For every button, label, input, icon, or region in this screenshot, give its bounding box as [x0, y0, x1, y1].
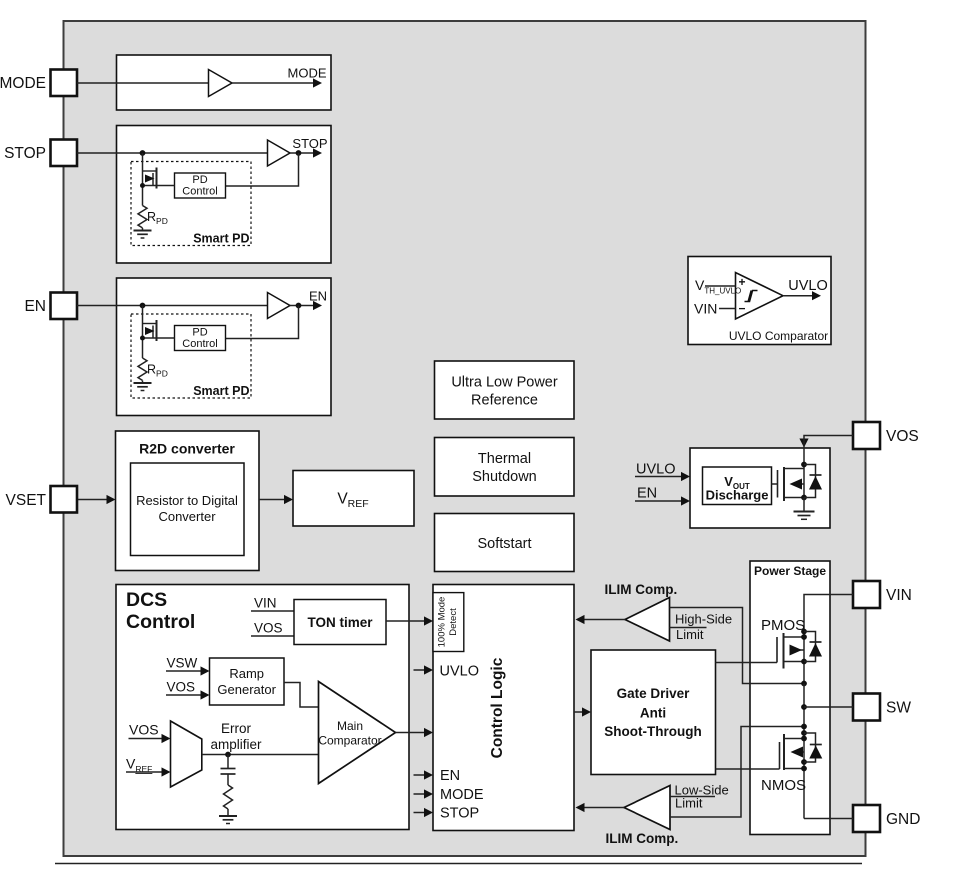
- svg-text:Shoot-Through: Shoot-Through: [604, 724, 701, 739]
- MODE buffer block box: [117, 55, 332, 110]
- svg-text:STOP: STOP: [4, 145, 46, 162]
- svg-text:Ramp: Ramp: [229, 666, 264, 681]
- PD Control box: [175, 326, 226, 351]
- IC body outline: [64, 21, 866, 856]
- wire gate driver to PMOS gate: [716, 662, 778, 664]
- error amplifier: [171, 721, 202, 787]
- wire resistor to ground: [142, 381, 144, 384]
- feedback wire to PD Control: [226, 306, 299, 339]
- buffer amplifier MODE: [209, 70, 233, 97]
- wire SW node to SW pin: [804, 706, 853, 708]
- wire ILIM comp to control logic: [585, 619, 626, 621]
- hysteresis symbol: [745, 291, 758, 302]
- svg-text:Comparator: Comparator: [318, 734, 381, 748]
- junction low-side sense: [801, 724, 807, 730]
- ground symbol compensation: [219, 815, 237, 817]
- wire EN into control logic: [414, 774, 425, 776]
- svg-text:ILIM Comp.: ILIM Comp.: [605, 582, 678, 597]
- svg-text:STOP: STOP: [440, 806, 479, 822]
- wire ILIM comp low to control logic: [585, 807, 625, 809]
- body diode of discharge FET: [804, 465, 816, 498]
- junction high-side sense: [801, 681, 807, 687]
- PD Control box: [175, 173, 226, 198]
- pin GND: [853, 805, 880, 832]
- wire VOS to TON timer: [251, 635, 294, 637]
- svg-text:Smart PD: Smart PD: [193, 384, 249, 398]
- svg-text:UVLO Comparator: UVLO Comparator: [729, 329, 828, 343]
- ground symbol discharge: [794, 511, 815, 513]
- svg-text:PD: PD: [192, 174, 207, 186]
- svg-text:Softstart: Softstart: [478, 536, 532, 552]
- Ultra Low Power Reference box: [435, 361, 575, 419]
- pin VIN: [853, 581, 880, 608]
- svg-text:PMOS: PMOS: [761, 617, 805, 634]
- svg-text:Error: Error: [221, 721, 252, 736]
- svg-text:NMOS: NMOS: [761, 777, 806, 794]
- wire VSET pin to R2D: [78, 499, 107, 501]
- junction at buffer output: [296, 150, 302, 156]
- wire SW node rail: [803, 684, 805, 734]
- buffer amplifier EN: [268, 293, 291, 319]
- Smart PD dashed box: [131, 162, 251, 246]
- svg-text:MODE: MODE: [0, 75, 46, 92]
- wire gate driver to NMOS gate: [716, 768, 780, 770]
- svg-text:VOS: VOS: [254, 621, 283, 636]
- svg-text:UVLO: UVLO: [636, 462, 676, 478]
- wire main comparator to control logic: [396, 732, 425, 734]
- svg-text:Gate Driver: Gate Driver: [617, 686, 691, 701]
- svg-text:100% Mode: 100% Mode: [437, 597, 448, 648]
- svg-text:R2D converter: R2D converter: [139, 441, 235, 457]
- resistor RPD: [138, 358, 147, 380]
- wire buffer to STOP output arrow: [290, 152, 314, 154]
- STOP input block box: [117, 126, 332, 264]
- svg-text:Resistor to Digital: Resistor to Digital: [136, 493, 238, 508]
- svg-text:STOP: STOP: [292, 136, 327, 151]
- wire MODE into control logic: [414, 793, 425, 795]
- pulldown transistor: [142, 306, 144, 359]
- svg-text:Power Stage: Power Stage: [754, 564, 826, 578]
- wire EN into discharge: [635, 500, 681, 502]
- svg-text:Converter: Converter: [158, 509, 216, 524]
- wire resistor to ground: [142, 228, 144, 231]
- svg-text:Ultra Low Power: Ultra Low Power: [451, 375, 558, 391]
- wire control logic to gate driver: [574, 711, 582, 713]
- low-side ILIM comparator: [624, 786, 670, 830]
- svg-text:VOS: VOS: [167, 680, 196, 695]
- pin VOS: [853, 422, 880, 449]
- svg-text:Anti: Anti: [640, 706, 666, 721]
- Power Stage box: [750, 561, 830, 835]
- wire EN pin to buffer: [77, 305, 268, 307]
- junction SW: [801, 704, 807, 710]
- junction node on STOP line: [140, 150, 146, 156]
- junction node on EN line: [140, 303, 146, 309]
- svg-text:VIN: VIN: [254, 596, 277, 611]
- svg-text:Control: Control: [182, 338, 217, 350]
- wire High-Side Limit stub: [670, 627, 707, 629]
- ground symbol: [134, 382, 152, 384]
- buffer amplifier STOP: [268, 140, 291, 166]
- wire R2D to VREF: [259, 499, 284, 501]
- svg-text:EN: EN: [440, 768, 460, 784]
- svg-text:VIN: VIN: [886, 587, 912, 604]
- wire VIN to comparator -: [719, 308, 736, 310]
- wire VSW to ramp generator: [166, 670, 201, 672]
- svg-text:EN: EN: [637, 486, 657, 502]
- wire buffer to EN output arrow: [290, 305, 314, 307]
- svg-text:Shutdown: Shutdown: [472, 469, 537, 485]
- svg-text:Main: Main: [337, 719, 363, 733]
- wire to discharge FET gate: [772, 483, 778, 485]
- svg-text:Generator: Generator: [217, 682, 276, 697]
- svg-text:VOS: VOS: [886, 428, 919, 445]
- wire resistor to ground: [227, 809, 229, 816]
- Smart PD dashed box: [131, 314, 251, 398]
- EN input block box: [117, 278, 332, 416]
- svg-text:Control Logic: Control Logic: [489, 657, 506, 758]
- svg-text:Smart PD: Smart PD: [193, 232, 249, 246]
- wire UVLO into discharge: [635, 476, 681, 478]
- wire STOP pin to buffer: [77, 152, 268, 154]
- svg-text:ILIM Comp.: ILIM Comp.: [606, 831, 679, 846]
- svg-text:Control: Control: [182, 186, 217, 198]
- Control Logic box: [433, 585, 574, 831]
- Resistor to Digital Converter box: [131, 463, 245, 556]
- pin EN: [51, 293, 78, 320]
- wire VTH to comparator +: [705, 285, 736, 287]
- wire VOS pin to discharge: [804, 436, 853, 439]
- transistor PMOS: [776, 637, 778, 663]
- wire ramp generator to main comparator: [284, 683, 319, 708]
- svg-text:Detect: Detect: [448, 608, 459, 636]
- compensation capacitor: [227, 755, 229, 769]
- feedback wire to PD Control: [226, 153, 299, 186]
- DCS Control box: [116, 585, 409, 830]
- svg-text:amplifier: amplifier: [210, 737, 262, 752]
- svg-text:UVLO: UVLO: [788, 278, 828, 294]
- body diode of PMOS: [804, 632, 816, 662]
- VREF box: [293, 471, 414, 527]
- wire VOS to error amplifier: [129, 738, 162, 740]
- wire high-side sense to power stage: [670, 608, 805, 684]
- wire TON timer to 100% mode detect: [386, 620, 424, 622]
- svg-text:VIN: VIN: [694, 301, 717, 317]
- svg-text:−: −: [738, 302, 745, 316]
- R2D converter outer box: [116, 431, 260, 571]
- UVLO Comparator box: [688, 257, 831, 345]
- svg-text:Control: Control: [126, 611, 195, 633]
- wire Low-Side Limit stub: [670, 796, 715, 798]
- bottom frame line: [55, 863, 862, 865]
- wire STOP into control logic: [414, 812, 425, 814]
- Thermal Shutdown box: [435, 438, 575, 497]
- svg-text:EN: EN: [309, 289, 327, 304]
- svg-text:TON timer: TON timer: [307, 615, 373, 630]
- TON timer box: [294, 600, 386, 645]
- svg-text:Thermal: Thermal: [478, 451, 531, 467]
- transistor NMOS: [779, 742, 781, 769]
- junction at buffer output: [296, 303, 302, 309]
- svg-text:VOS: VOS: [129, 722, 159, 738]
- wire comparator to UVLO arrow: [783, 295, 812, 297]
- discharge transistor Q-DIS: [777, 470, 779, 498]
- compensation resistor: [224, 785, 233, 809]
- pin STOP: [51, 140, 78, 167]
- wire error amp to main comparator: [202, 754, 319, 756]
- svg-text:Reference: Reference: [471, 393, 538, 409]
- wire UVLO into control logic: [414, 669, 425, 671]
- Ramp Generator box: [210, 658, 285, 705]
- svg-text:High-Side: High-Side: [675, 612, 732, 627]
- Vout Discharge inner box: [703, 467, 772, 505]
- body diode of NMOS: [804, 733, 816, 762]
- svg-text:PD: PD: [192, 327, 207, 339]
- svg-text:MODE: MODE: [288, 66, 327, 81]
- svg-text:UVLO: UVLO: [440, 664, 480, 680]
- Softstart box: [435, 514, 575, 572]
- Vout Discharge outer box: [690, 448, 830, 528]
- high-side ILIM comparator: [625, 598, 670, 642]
- junction at compensation: [225, 752, 231, 758]
- ground symbol: [134, 230, 152, 232]
- svg-text:EN: EN: [24, 298, 46, 315]
- wire buffer to MODE output arrow: [232, 82, 314, 84]
- Main Comparator: [319, 682, 396, 784]
- wire FET source to ground: [803, 498, 805, 512]
- wire low-side sense to power stage: [670, 727, 804, 818]
- svg-text:Limit: Limit: [676, 627, 704, 642]
- wire VIN pin to PMOS drain: [804, 595, 853, 632]
- svg-text:Limit: Limit: [675, 796, 703, 811]
- pin MODE: [51, 70, 78, 97]
- 100% Mode Detect box: [433, 593, 464, 652]
- pulldown transistor: [142, 153, 144, 206]
- svg-text:VSW: VSW: [167, 656, 198, 671]
- svg-text:VSET: VSET: [6, 492, 47, 509]
- wire VREF to error amplifier: [126, 771, 162, 773]
- pin SW: [853, 694, 880, 721]
- Gate Driver box: [591, 650, 716, 775]
- comparator U-UVLO: [736, 273, 784, 320]
- svg-text:MODE: MODE: [440, 787, 484, 803]
- wire NMOS source to GND pin: [804, 818, 853, 820]
- svg-text:GND: GND: [886, 811, 920, 828]
- wire capacitor to resistor: [227, 774, 229, 785]
- wire VIN to TON timer: [251, 610, 294, 612]
- pin VSET: [51, 486, 78, 513]
- svg-text:SW: SW: [886, 700, 911, 717]
- resistor RPD: [138, 206, 147, 228]
- wire VOS to ramp generator: [166, 694, 201, 696]
- wire MODE pin to buffer: [77, 82, 209, 84]
- svg-text:Discharge: Discharge: [706, 488, 769, 503]
- svg-text:DCS: DCS: [126, 589, 167, 611]
